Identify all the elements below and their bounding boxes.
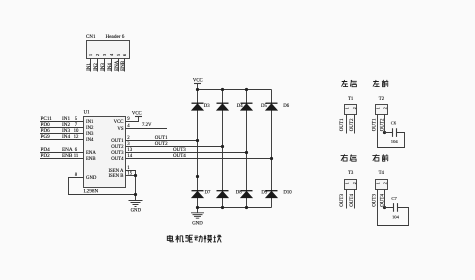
- svg-text:U1: U1: [84, 111, 91, 116]
- svg-text:11: 11: [74, 154, 79, 159]
- svg-text:IN3: IN3: [86, 132, 94, 137]
- svg-text:OUT2: OUT2: [380, 118, 385, 131]
- svg-text:D8: D8: [236, 190, 242, 195]
- svg-text:C7: C7: [391, 196, 397, 201]
- svg-text:104: 104: [392, 215, 400, 220]
- svg-text:7.2V: 7.2V: [142, 123, 152, 128]
- svg-text:IN2: IN2: [94, 63, 99, 71]
- svg-text:ENA: ENA: [86, 151, 96, 156]
- svg-text:D3: D3: [204, 104, 210, 109]
- svg-text:1: 1: [344, 182, 349, 184]
- svg-text:OUT3: OUT3: [173, 148, 186, 153]
- svg-text:1: 1: [375, 107, 380, 109]
- svg-text:VCC: VCC: [114, 120, 124, 125]
- svg-text:13: 13: [127, 148, 132, 153]
- svg-text:T1: T1: [348, 97, 354, 102]
- svg-text:OUT4: OUT4: [173, 154, 186, 159]
- svg-text:1: 1: [88, 54, 93, 56]
- svg-text:OUT1: OUT1: [372, 118, 377, 131]
- svg-text:C6: C6: [391, 120, 397, 125]
- svg-text:OUT4: OUT4: [350, 194, 355, 207]
- svg-text:3: 3: [102, 54, 107, 56]
- svg-text:PG9: PG9: [41, 134, 51, 140]
- svg-text:ENB: ENB: [86, 157, 96, 162]
- svg-text:IN1: IN1: [86, 120, 94, 125]
- svg-text:PD2: PD2: [41, 153, 51, 159]
- svg-text:VCC: VCC: [132, 112, 142, 117]
- svg-text:2: 2: [382, 182, 387, 184]
- svg-text:12: 12: [74, 135, 79, 140]
- svg-text:IN2: IN2: [86, 126, 94, 131]
- svg-text:ENB: ENB: [121, 60, 126, 71]
- svg-text:D7: D7: [205, 190, 211, 195]
- svg-text:VS: VS: [117, 127, 123, 132]
- svg-text:15: 15: [127, 171, 132, 176]
- svg-text:1: 1: [344, 107, 349, 109]
- svg-text:D10: D10: [283, 190, 292, 195]
- svg-text:VCC: VCC: [193, 78, 203, 83]
- svg-text:Header 6: Header 6: [106, 34, 125, 40]
- svg-text:GND: GND: [131, 208, 142, 213]
- svg-text:OUT4: OUT4: [111, 157, 124, 162]
- svg-text:GND: GND: [86, 176, 97, 181]
- svg-text:14: 14: [127, 154, 132, 159]
- svg-text:T3: T3: [348, 171, 354, 176]
- svg-text:1: 1: [375, 182, 380, 184]
- svg-text:5: 5: [116, 54, 121, 56]
- svg-text:104: 104: [391, 139, 399, 144]
- svg-text:CN1: CN1: [86, 35, 96, 40]
- svg-text:OUT2: OUT2: [350, 118, 355, 131]
- svg-text:6: 6: [122, 54, 127, 56]
- svg-text:ENA: ENA: [115, 60, 120, 71]
- svg-text:ISEN B: ISEN B: [108, 174, 123, 179]
- svg-text:D9: D9: [261, 190, 267, 195]
- svg-text:OUT4: OUT4: [380, 194, 385, 207]
- svg-text:T2: T2: [379, 97, 385, 102]
- svg-text:GND: GND: [192, 222, 203, 227]
- svg-text:OUT2: OUT2: [155, 142, 168, 147]
- svg-text:OUT1: OUT1: [155, 136, 168, 141]
- svg-text:IN4: IN4: [108, 63, 113, 71]
- svg-text:IN4: IN4: [62, 134, 70, 140]
- svg-text:IN1: IN1: [87, 63, 92, 71]
- svg-text:2: 2: [95, 54, 100, 56]
- svg-text:OUT2: OUT2: [111, 145, 124, 150]
- svg-text:OUT3: OUT3: [372, 194, 377, 207]
- svg-text:D4: D4: [237, 104, 243, 109]
- svg-text:IN4: IN4: [86, 138, 94, 143]
- svg-text:2: 2: [352, 107, 357, 109]
- svg-text:OUT1: OUT1: [340, 118, 345, 131]
- svg-text:OUT3: OUT3: [111, 151, 124, 156]
- svg-text:T4: T4: [379, 171, 385, 176]
- svg-text:L298N: L298N: [84, 189, 99, 195]
- svg-text:ENB: ENB: [62, 153, 73, 159]
- svg-text:OUT3: OUT3: [340, 194, 345, 207]
- svg-text:10: 10: [74, 129, 79, 134]
- svg-text:IN3: IN3: [101, 63, 106, 71]
- svg-text:2: 2: [352, 182, 357, 184]
- svg-text:2: 2: [382, 107, 387, 109]
- svg-text:D6: D6: [283, 104, 289, 109]
- svg-text:OUT1: OUT1: [111, 139, 124, 144]
- svg-text:D5: D5: [261, 104, 267, 109]
